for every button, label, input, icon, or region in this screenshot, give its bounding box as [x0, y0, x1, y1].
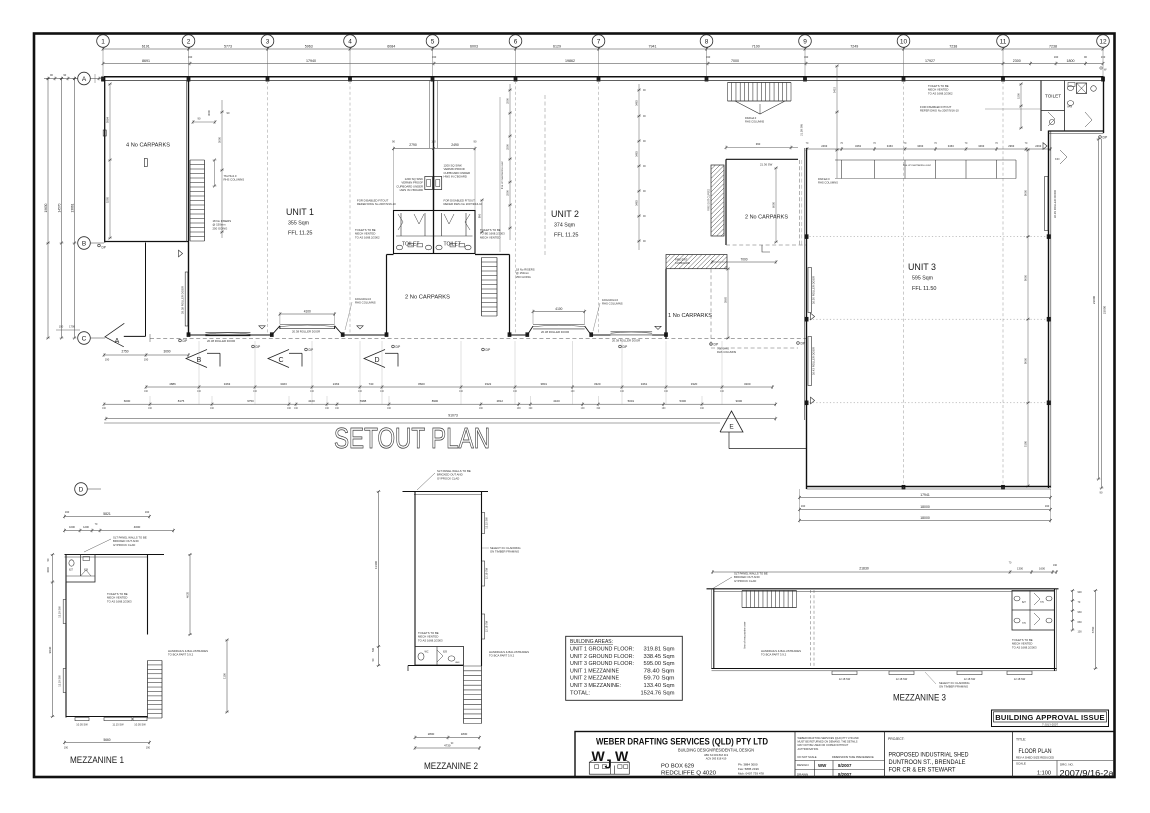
svg-text:21.59 SW: 21.59 SW: [800, 124, 804, 136]
mezz1 left wall: [65, 555, 67, 718]
section flag B: [186, 350, 207, 368]
svg-text:2812: 2812: [497, 399, 504, 403]
svg-text:8175: 8175: [178, 399, 185, 403]
E flag: [720, 411, 743, 432]
svg-text:MAY NOT BE USED OR COPIED WIT: MAY NOT BE USED OR COPIED WITHOUT: [798, 743, 849, 747]
svg-text:3463: 3463: [635, 151, 639, 157]
svg-text:RHS COLUMNS: RHS COLUMNS: [355, 301, 376, 305]
mezz1 right wall: [147, 555, 149, 635]
DP below B: [179, 339, 182, 342]
DP top right corner: [1100, 67, 1102, 69]
svg-text:1800: 1800: [1067, 59, 1075, 63]
unit3 bottom dims: [800, 497, 1051, 499]
svg-text:5821: 5821: [103, 512, 111, 516]
svg-text:21.36 SW: 21.36 SW: [760, 163, 773, 167]
svg-text:line of mezzanine over: line of mezzanine over: [500, 161, 504, 189]
unit3 west roller door lower: [808, 337, 811, 386]
section flag D: [364, 350, 385, 368]
grid centrelines dashed in plan: [267, 81, 269, 334]
DP right of carpark: [797, 342, 800, 345]
door recess 2 trapezoid: [272, 326, 280, 335]
svg-text:GYPROCK CLAD: GYPROCK CLAD: [734, 579, 756, 583]
7000 dim below carpark: [725, 266, 727, 270]
svg-text:190: 190: [1045, 504, 1050, 508]
unit3 interior dim chain east: [1027, 150, 1029, 486]
svg-text:VAN: VAN: [455, 661, 460, 664]
svg-text:630: 630: [1078, 621, 1083, 624]
svg-text:SCALE: SCALE: [1016, 762, 1026, 766]
top dimension row 1: [103, 48, 1103, 50]
mezz3 right wall: [1054, 589, 1056, 671]
mezz1 top dim 5821: [65, 516, 150, 518]
svg-text:J: J: [605, 756, 612, 771]
svg-text:UNIT 3: UNIT 3: [908, 262, 936, 273]
svg-text:91073: 91073: [448, 413, 458, 417]
svg-text:1600: 1600: [1039, 566, 1045, 570]
extension lines from facade to dim rows: [198, 341, 200, 405]
mezz1 left vertical dim: [52, 555, 54, 717]
svg-text:18000: 18000: [920, 516, 930, 520]
svg-text:5415: 5415: [833, 86, 837, 93]
small ticks near bubble C: [56, 329, 80, 331]
svg-text:3463: 3463: [978, 144, 984, 148]
svg-text:1:100: 1:100: [1037, 771, 1051, 777]
svg-text:190: 190: [64, 747, 69, 750]
svg-text:12.18 SW: 12.18 SW: [485, 620, 489, 632]
svg-text:190: 190: [1054, 55, 1059, 59]
svg-text:3000: 3000: [207, 110, 211, 116]
svg-text:5001: 5001: [628, 399, 635, 403]
svg-text:TO BCA PART 3.9.2: TO BCA PART 3.9.2: [168, 653, 194, 657]
svg-text:3463: 3463: [224, 382, 231, 386]
svg-text:3000: 3000: [218, 136, 222, 143]
mezz2 right cladding markers: [482, 513, 485, 534]
svg-text:595 Sqm: 595 Sqm: [912, 276, 933, 282]
grid bubble 10: [897, 35, 910, 48]
svg-text:FFL 11.25: FFL 11.25: [288, 231, 313, 237]
svg-text:3463: 3463: [917, 144, 923, 148]
svg-text:HWS IN C'BOARD: HWS IN C'BOARD: [444, 175, 467, 179]
svg-text:Db/Fla4.0: Db/Fla4.0: [745, 116, 757, 120]
DP at B corner: [98, 244, 101, 247]
mezz2 right wall: [481, 492, 483, 667]
svg-text:2963: 2963: [1008, 144, 1014, 148]
svg-text:11.15 SW: 11.15 SW: [112, 723, 124, 727]
column markers unit3 walls: [805, 235, 808, 239]
svg-text:250 GOING: 250 GOING: [516, 275, 531, 279]
svg-text:TO AS 1668.2/2002: TO AS 1668.2/2002: [355, 235, 380, 239]
centre recess walls 2 No CARPARKS: [386, 255, 388, 336]
svg-text:3090: 3090: [163, 350, 170, 354]
svg-text:Fax: 5895 2199: Fax: 5895 2199: [738, 767, 759, 771]
svg-text:20.38 ROLLER DOOR: 20.38 ROLLER DOOR: [612, 339, 640, 343]
svg-text:7000: 7000: [740, 258, 747, 262]
unit 3 south wall: [807, 486, 1051, 488]
svg-text:5: 5: [431, 38, 435, 45]
svg-text:5988: 5988: [360, 399, 367, 403]
svg-text:12.18 SW: 12.18 SW: [1014, 677, 1026, 681]
grid bubble 5: [426, 35, 439, 48]
svg-text:7100: 7100: [752, 44, 760, 48]
svg-text:UNIT 3 GROUND FLOOR:: UNIT 3 GROUND FLOOR:: [570, 661, 634, 667]
svg-text:ABN 64 093 818 419: ABN 64 093 818 419: [704, 753, 729, 757]
svg-text:BUILDING APPROVAL ISSUE: BUILDING APPROVAL ISSUE: [995, 713, 1105, 722]
svg-text:DIMENSIONS TAKE PRECEDENCE: DIMENSIONS TAKE PRECEDENCE: [832, 755, 874, 759]
left vertical dimension chains: [47, 79, 49, 339]
svg-text:1524.76 Sqm: 1524.76 Sqm: [641, 690, 676, 696]
svg-text:3801: 3801: [541, 382, 548, 386]
svg-text:RHS COLUMNS: RHS COLUMNS: [745, 120, 764, 124]
svg-text:WW: WW: [818, 763, 827, 768]
svg-text:595.00 Sqm: 595.00 Sqm: [644, 661, 676, 667]
svg-text:DESIGN: DESIGN: [797, 763, 809, 767]
grid bubble 11: [997, 35, 1010, 48]
svg-text:5984: 5984: [106, 116, 110, 123]
svg-text:9030: 9030: [48, 646, 52, 653]
svg-text:2750: 2750: [121, 350, 128, 354]
svg-text:REFER DWG No 2007/9/16-10: REFER DWG No 2007/9/16-10: [444, 202, 483, 206]
svg-text:2300: 2300: [1013, 59, 1021, 63]
mezz2 toilet: [415, 647, 464, 666]
left carpark inner dim chain: [109, 84, 111, 238]
svg-text:PROPOSED INDUSTRIAL SHED: PROPOSED INDUSTRIAL SHED: [889, 753, 970, 759]
dim chain grid 8 top: [836, 66, 838, 178]
svg-text:10.05 SW: 10.05 SW: [134, 723, 146, 727]
svg-text:5190: 5190: [1024, 440, 1028, 447]
svg-text:KIO: KIO: [1055, 157, 1059, 161]
mezz3 top dim 21830: [713, 571, 1057, 573]
svg-text:GYPROCK CLAD: GYPROCK CLAD: [437, 476, 459, 480]
mezz1 stairs: [147, 661, 149, 719]
svg-text:ACN 093 818 419: ACN 093 818 419: [706, 757, 727, 761]
svg-text:3461: 3461: [641, 382, 648, 386]
svg-text:TO AS 1668.2/2003: TO AS 1668.2/2003: [107, 599, 132, 603]
svg-text:2463: 2463: [821, 144, 827, 148]
svg-text:190: 190: [1053, 564, 1058, 567]
svg-text:TO AS 1668.2/2003: TO AS 1668.2/2003: [418, 638, 443, 642]
svg-text:2800: 2800: [428, 732, 435, 736]
svg-text:10.05 SW: 10.05 SW: [76, 723, 88, 727]
svg-text:829: 829: [443, 651, 448, 654]
svg-text:2 No CARPARKS: 2 No CARPARKS: [405, 295, 451, 301]
fire exit cupboard hatched: [666, 255, 727, 269]
svg-text:374 Sqm: 374 Sqm: [554, 223, 575, 229]
mezz2 left wall: [414, 492, 416, 667]
svg-text:4100: 4100: [304, 310, 311, 314]
svg-text:REDCLIFFE Q 4020: REDCLIFFE Q 4020: [661, 771, 716, 777]
svg-text:line of mezzanine over: line of mezzanine over: [903, 163, 931, 167]
top wall of building: [104, 76, 1104, 78]
DP at step corner: [1099, 136, 1102, 139]
svg-text:39.38 ROLLER DOOR: 39.38 ROLLER DOOR: [180, 286, 184, 314]
svg-text:DP: DP: [486, 348, 491, 352]
mezz3 mezzanine-over dashes: [810, 590, 812, 669]
svg-text:8/2007: 8/2007: [838, 772, 852, 777]
svg-text:WC: WC: [425, 651, 429, 654]
svg-text:338.45 Sqm: 338.45 Sqm: [644, 654, 676, 660]
svg-text:100: 100: [1078, 631, 1083, 634]
svg-text:19862: 19862: [565, 59, 575, 63]
svg-text:190: 190: [146, 747, 151, 750]
grid bubble 8: [700, 35, 713, 48]
mezz1 top wall: [65, 554, 165, 556]
svg-text:TO AS 1668.2/2002: TO AS 1668.2/2002: [928, 91, 953, 95]
grid bubble 1: [97, 35, 110, 48]
grid bubble 4: [344, 35, 357, 48]
svg-text:4100: 4100: [555, 307, 562, 311]
mezz3 top wall: [707, 588, 1059, 590]
mezz3 stairs: [742, 590, 797, 592]
svg-text:PROJECT:: PROJECT:: [888, 737, 904, 741]
svg-text:DO NOT SCALE.: DO NOT SCALE.: [798, 755, 818, 759]
svg-text:3463: 3463: [635, 200, 639, 206]
svg-text:6760: 6760: [1091, 626, 1095, 633]
svg-text:TOILET: TOILET: [1045, 94, 1061, 99]
svg-text:FFL 11.25: FFL 11.25: [554, 233, 579, 239]
svg-text:Ph: 3884 3000: Ph: 3884 3000: [738, 763, 758, 767]
svg-text:23000: 23000: [1092, 295, 1096, 304]
dim row A below facade: [146, 386, 773, 388]
building approval issue stamp: [992, 710, 1109, 727]
svg-text:11: 11: [1000, 38, 1007, 45]
svg-text:RHS COLUMNS: RHS COLUMNS: [717, 350, 736, 354]
mezz2 bottom dims: [415, 737, 480, 739]
svg-text:190: 190: [105, 358, 110, 362]
svg-text:PO BOX 629: PO BOX 629: [661, 764, 694, 770]
svg-text:76x76x4.0: 76x76x4.0: [717, 347, 730, 351]
row bubble B: [78, 237, 91, 250]
recess stair flight: [481, 258, 483, 317]
svg-text:FIRE EXIT: FIRE EXIT: [675, 258, 688, 262]
carpark 8-9 walls: [725, 159, 727, 245]
carpark 8-9 top dim: [726, 147, 798, 149]
svg-text:14570: 14570: [57, 203, 61, 212]
4100 dim over recess 2: [280, 313, 335, 315]
section flag C: [268, 350, 289, 368]
svg-text:5660: 5660: [103, 738, 110, 742]
svg-text:12.18 SW: 12.18 SW: [839, 677, 851, 681]
svg-text:9: 9: [803, 38, 807, 45]
svg-text:4: 4: [348, 38, 352, 45]
svg-text:190: 190: [431, 140, 436, 144]
top dimension row 2: [103, 63, 1103, 65]
grid bubble 6: [509, 35, 522, 48]
east wall of unit2 recess: [665, 269, 667, 339]
dim row B below facade: [104, 403, 776, 405]
svg-text:6191: 6191: [142, 44, 150, 48]
svg-text:2463: 2463: [1035, 144, 1041, 148]
svg-text:TO BCA PART 3.9.2: TO BCA PART 3.9.2: [489, 654, 515, 658]
svg-text:D: D: [374, 357, 379, 364]
svg-text:4 No CARPARKS: 4 No CARPARKS: [126, 143, 171, 149]
stairs top grid 8-9: [728, 82, 792, 84]
toilet fixtures: [396, 245, 402, 250]
svg-text:TO AS 1668.2/2003: TO AS 1668.2/2003: [1012, 645, 1037, 649]
top right toilet walls: [1040, 81, 1042, 132]
svg-text:4600: 4600: [134, 525, 141, 529]
svg-text:3463: 3463: [855, 144, 861, 148]
svg-text:11400: 11400: [374, 561, 378, 569]
svg-text:12: 12: [1099, 38, 1107, 45]
toilet door swings: [398, 214, 403, 230]
svg-text:DP: DP: [396, 345, 401, 349]
carpark 8-9 dim: [775, 168, 777, 242]
svg-text:2500: 2500: [506, 98, 510, 104]
svg-text:1 No CARPARKS: 1 No CARPARKS: [668, 313, 713, 319]
grid bubble 2: [182, 35, 195, 48]
svg-text:UNIT 1 GROUND FLOOR:: UNIT 1 GROUND FLOOR:: [570, 647, 634, 653]
svg-text:319.81 Sqm: 319.81 Sqm: [644, 647, 676, 653]
svg-text:RHS COLUMNS: RHS COLUMNS: [602, 302, 623, 306]
mezz3 bottom cladding markers: [832, 671, 857, 675]
svg-text:W: W: [592, 748, 606, 764]
4100 dim over recess 3: [533, 311, 585, 313]
left carpark south wall: [105, 241, 189, 243]
svg-text:B: B: [197, 357, 202, 364]
svg-text:3965: 3965: [724, 296, 728, 303]
svg-text:UNIT 2 GROUND FLOOR:: UNIT 2 GROUND FLOOR:: [570, 654, 634, 660]
svg-text:9000: 9000: [1024, 189, 1028, 196]
svg-text:BUILDING DESIGN/RESIDENTIAL: BUILDING DESIGN/RESIDENTIAL DESIGN: [678, 748, 754, 753]
dim chain unit2 circles: [638, 84, 640, 250]
door recess 3 trapezoid: [527, 326, 533, 335]
svg-text:740: 740: [369, 382, 374, 386]
svg-text:900: 900: [1078, 591, 1083, 594]
svg-text:1200: 1200: [83, 525, 89, 529]
flat roller door 1: [205, 331, 250, 333]
svg-text:4100: 4100: [553, 399, 560, 403]
svg-text:355 Sqm: 355 Sqm: [288, 221, 309, 227]
svg-text:3200: 3200: [744, 382, 751, 386]
svg-text:9000: 9000: [1024, 274, 1028, 281]
svg-text:20.38 ROLLER DOOR: 20.38 ROLLER DOOR: [292, 330, 320, 334]
svg-text:RHS COLUMNS: RHS COLUMNS: [224, 178, 245, 182]
mezz2 bottom wall: [408, 665, 464, 667]
svg-text:890: 890: [478, 213, 482, 218]
svg-text:3320: 3320: [691, 382, 698, 386]
svg-text:190: 190: [1101, 55, 1106, 59]
svg-text:ON TIMBER FRAMING: ON TIMBER FRAMING: [939, 685, 968, 689]
svg-text:E: E: [729, 424, 734, 431]
svg-text:REFER DWG No 2007/9/16-10: REFER DWG No 2007/9/16-10: [357, 202, 396, 206]
svg-text:DP: DP: [309, 348, 314, 352]
svg-text:6129: 6129: [553, 44, 561, 48]
dim chain unit1 interior: [221, 100, 223, 238]
svg-text:TOTAL:: TOTAL:: [570, 690, 590, 696]
svg-text:7238: 7238: [1049, 44, 1057, 48]
toilet fixtures top right: [1067, 86, 1073, 91]
dashed edge of carpark 8-9: [710, 269, 712, 348]
svg-text:8900: 8900: [432, 399, 439, 403]
svg-text:MEZZANINE 2: MEZZANINE 2: [424, 761, 478, 771]
fire exit cupboard vertical hatched grid8: [711, 165, 724, 236]
svg-text:190: 190: [65, 510, 70, 514]
svg-text:Mob: 0407 739 478: Mob: 0407 739 478: [738, 772, 764, 776]
svg-text:RHS COLUMNS: RHS COLUMNS: [818, 181, 838, 185]
mezz1 dim row 2: [65, 530, 174, 532]
toilet internal partitions: [433, 211, 435, 254]
svg-text:5773: 5773: [224, 44, 232, 48]
svg-text:2007/9/16-2a: 2007/9/16-2a: [1060, 769, 1114, 778]
svg-text:ON TIMBER FRAMING: ON TIMBER FRAMING: [490, 550, 519, 554]
unit3 west wall lower segment: [806, 420, 808, 489]
svg-text:MECH VENTED: MECH VENTED: [480, 235, 500, 239]
mezz2 stairs: [463, 666, 465, 724]
row bubble C: [78, 332, 91, 345]
svg-text:19630: 19630: [44, 203, 48, 212]
section cut line E: [104, 422, 720, 424]
L mark under carpark: [762, 245, 770, 252]
svg-text:1790: 1790: [69, 325, 75, 329]
grid stems down to wall: [102, 49, 104, 77]
svg-text:59.70 Sqm: 59.70 Sqm: [644, 676, 676, 682]
svg-text:7000: 7000: [731, 59, 739, 63]
mezz2 top cap: [403, 491, 489, 493]
svg-text:190: 190: [801, 504, 806, 508]
svg-text:17927: 17927: [925, 59, 935, 63]
mezz1 bottom dim: [65, 742, 150, 744]
facade wall unit1 segment: [189, 334, 272, 336]
svg-text:7941: 7941: [649, 44, 657, 48]
DP near 1 No carparks: [710, 343, 713, 346]
svg-text:1830: 1830: [461, 732, 468, 736]
svg-text:B: B: [82, 240, 86, 247]
svg-text:9000: 9000: [1024, 357, 1028, 364]
svg-text:AUTHORISATION.: AUTHORISATION.: [798, 747, 820, 751]
svg-text:9750: 9750: [247, 399, 254, 403]
svg-text:MEZZANINE 1: MEZZANINE 1: [70, 755, 124, 765]
grid bubble 7: [592, 35, 605, 48]
column marker left wall: [144, 159, 147, 167]
svg-text:DP: DP: [623, 345, 628, 349]
svg-text:1: 1: [101, 38, 105, 45]
column markers along facade: [187, 333, 190, 337]
svg-text:2790: 2790: [409, 143, 417, 147]
svg-text:WEBER DRAFTING SERVICES (QLD): WEBER DRAFTING SERVICES (QLD) PTY LTD AN…: [798, 736, 859, 740]
svg-text:5300: 5300: [680, 399, 687, 403]
svg-text:930: 930: [1078, 611, 1083, 614]
central toilet block outer walls: [394, 211, 476, 254]
svg-text:DRG. NO.: DRG. NO.: [1060, 763, 1074, 767]
svg-text:8/2007: 8/2007: [838, 763, 852, 768]
sink cupboards above toilets: [425, 177, 433, 190]
mezz2 left vertical dim: [378, 492, 380, 666]
stair dim marks above: [214, 160, 216, 186]
grid bubble 3: [261, 35, 274, 48]
svg-text:190: 190: [804, 55, 809, 59]
svg-text:VAN: VAN: [1067, 105, 1072, 109]
svg-text:W: W: [615, 748, 629, 764]
column markers along top wall: [101, 77, 104, 81]
facade left segment start tick: [149, 334, 151, 342]
mezz3 right dims: [1072, 591, 1074, 631]
svg-text:36.50 ROLLER DOOR: 36.50 ROLLER DOOR: [812, 276, 816, 304]
svg-text:7249: 7249: [850, 44, 858, 48]
facade wall after recess 3: [591, 334, 610, 336]
mezz1 bottom cladding markers: [75, 718, 89, 721]
svg-text:13861: 13861: [70, 203, 74, 212]
dim chain left of toilets: [509, 84, 511, 240]
svg-text:7238: 7238: [949, 44, 957, 48]
svg-text:6084: 6084: [387, 44, 395, 48]
svg-text:20.38 ROLLER DOOR: 20.38 ROLLER DOOR: [541, 330, 569, 334]
svg-text:UNIT 1 MEZZANINE: UNIT 1 MEZZANINE: [570, 668, 619, 674]
grid 2 wall east of carpark: [188, 81, 190, 336]
svg-text:REV A SHED SIZE REDUCED: REV A SHED SIZE REDUCED: [1016, 756, 1055, 760]
svg-text:A: A: [82, 76, 87, 83]
svg-text:C: C: [82, 335, 87, 342]
svg-text:500: 500: [372, 647, 375, 652]
